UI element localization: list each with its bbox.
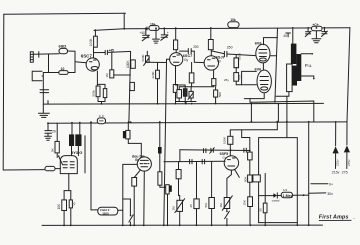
svg-text:1.Meg: 1.Meg [283, 194, 293, 198]
svg-text:30v: 30v [327, 192, 333, 196]
svg-text:1M: 1M [219, 203, 223, 208]
svg-text:100K: 100K [126, 60, 130, 68]
ground below can cap [312, 31, 321, 43]
resistor R26 bottom row 5 [248, 197, 253, 226]
svg-text:5K: 5K [51, 148, 55, 152]
wire D1 to box [277, 195, 281, 197]
transformer T1 OT primary A [291, 44, 297, 64]
wire plate line to bus [277, 104, 279, 122]
svg-text:20: 20 [52, 129, 56, 133]
capacitor C12 near OT top wire [286, 33, 291, 37]
svg-text:Gy: Gy [135, 158, 139, 162]
wire drop rail to bus x251 [250, 104, 252, 122]
svg-text:100K: 100K [238, 53, 242, 60]
svg-text:1050: 1050 [102, 211, 109, 215]
tick above rail x48 [47, 101, 49, 105]
capacitor C7 coupling to power grids [211, 51, 256, 57]
wire P1 plate top jog [264, 38, 278, 45]
wire B+ bus [48, 122, 347, 123]
svg-text:Gy: Gy [217, 59, 221, 63]
switch SW1 diagonal near tube [58, 155, 63, 165]
wire vertical x309 [308, 122, 310, 225]
capacitor C20 small on x160 [158, 122, 162, 172]
svg-text:215v: 215v [336, 159, 340, 166]
junctions on B+ bus [47, 121, 337, 125]
diode D1 [273, 193, 277, 198]
wire R1 to V1 grid junction [68, 51, 76, 73]
wire vertical left ground branch [42, 73, 44, 105]
wire y130 [230, 129, 277, 131]
wire R12-R13 [235, 68, 237, 73]
capacitor C24 electrolytic [166, 185, 172, 226]
tube V2 6SC7 [170, 53, 183, 66]
resistor R20 on x160 [158, 172, 166, 187]
svg-text:100K: 100K [223, 137, 227, 144]
wire bus down to T2 [71, 123, 73, 135]
capacitor C10 left of ground [305, 28, 311, 37]
svg-text:10: 10 [61, 67, 65, 71]
wire V1 plate to coupling cap [94, 52, 105, 54]
capacitor C22 on wire2 [202, 160, 204, 164]
tube V3 6SJ7 [204, 56, 218, 70]
transformer T2 power bar A [69, 134, 74, 146]
wire V4 grid to drop [123, 163, 138, 165]
wire cathode bus left [179, 86, 214, 87]
svg-text:10K: 10K [242, 200, 246, 205]
wire R13 bottom bus [236, 81, 256, 85]
wire R9 to rail [175, 92, 177, 103]
capacitor C17 with ground [45, 131, 52, 141]
wire grid junction to V1 [75, 62, 86, 63]
terminal stub 2 [309, 192, 326, 194]
svg-text:25: 25 [189, 204, 193, 208]
resistor R22 V5 plate [228, 130, 233, 156]
svg-text:6V6: 6V6 [255, 67, 262, 71]
resistor R2 V1 plate [94, 36, 98, 47]
wire plate vertical x275 [275, 28, 278, 102]
svg-text:40: 40 [283, 34, 287, 38]
jack J2 open box [32, 71, 42, 81]
wire V2 cathode [175, 66, 177, 85]
resistor R18 filter [62, 191, 67, 226]
wire V3 plate [210, 50, 212, 56]
wire field coil right drop [122, 164, 124, 225]
svg-text:100K: 100K [89, 38, 93, 47]
wire P1-P2 link [262, 63, 264, 70]
svg-text:~: ~ [353, 217, 355, 221]
svg-text:6SC7: 6SC7 [81, 54, 93, 59]
svg-text:crystal: crystal [272, 199, 280, 203]
wire2 y161.5 [164, 160, 225, 163]
svg-text:1M: 1M [171, 206, 175, 211]
tube P2 6V6 [257, 70, 271, 93]
pot VR1 volume [144, 51, 150, 65]
wire from jack [33, 53, 59, 56]
ground on rail x156 [153, 28, 160, 43]
capacitor C5 cathode bypass [176, 85, 188, 104]
wire box to right [293, 194, 309, 196]
resistor R3 on x131 [131, 60, 136, 68]
tube V4 [137, 157, 151, 171]
resistor R15 bias [177, 87, 182, 102]
ground main (left) [38, 104, 49, 117]
resistor R6 cathode [96, 86, 100, 97]
svg-text:5Y3 G: 5Y3 G [71, 150, 82, 155]
svg-text:+45: +45 [108, 48, 114, 52]
transformer T2 power bar B [75, 134, 81, 146]
node tick on input wire [38, 52, 40, 58]
resistor R27 boxed 1meg [281, 192, 292, 198]
wire V4 cathode [134, 170, 140, 178]
resistor R13 grid divider B [234, 73, 239, 82]
wire J2 to down line [42, 75, 43, 77]
wire T2 to rectifier B [77, 146, 79, 156]
resistor R16 screen [214, 87, 218, 104]
capacitor C19 filter on bus [123, 122, 130, 143]
tube V5 6SF5 [224, 156, 238, 170]
wire bus left end down [47, 123, 49, 130]
resistor R17 10K box on rail [228, 22, 239, 28]
svg-text:6V6: 6V6 [255, 41, 262, 45]
svg-text:500c: 500c [92, 89, 96, 96]
svg-text:275v: 275v [347, 159, 351, 166]
svg-text:500K: 500K [141, 54, 145, 61]
wire V2 plate [175, 50, 177, 53]
capacitor C4 cathode bypass [97, 84, 106, 97]
choke L1 field coil box [91, 207, 123, 215]
capacitor C9 can on rail [312, 26, 323, 30]
transformer T1 OT primary B [296, 54, 301, 81]
wire C bottom to speaker [286, 96, 288, 137]
svg-text:500: 500 [218, 92, 222, 97]
wire V3 cathode [213, 70, 215, 79]
capacitor C2 on ground branch [40, 90, 49, 93]
svg-text:50c: 50c [204, 202, 208, 207]
svg-text:1/4: 1/4 [283, 188, 288, 192]
svg-text:Vy: Vy [72, 202, 76, 206]
capacitor C13 box on rail 16uF [147, 26, 159, 31]
resistor R24 bottom row 2 [194, 162, 199, 226]
wire grid leak drop [48, 54, 50, 73]
capacitor pair on wire1 B [210, 148, 215, 154]
resistor R30 on x250 [248, 175, 253, 182]
wire split junction [64, 190, 71, 192]
capacitor C3 coupling [105, 50, 107, 54]
svg-text:68Ω: 68Ω [59, 44, 67, 49]
wire rectifier output down [68, 174, 70, 191]
wire y130 left corner down [242, 130, 250, 199]
resistor R14 V3 cathode [212, 79, 216, 86]
wire T2 right heater [84, 136, 86, 173]
wire left border [3, 14, 45, 170]
svg-text:275: 275 [342, 170, 348, 174]
wire P1 plate to vertical [270, 55, 276, 57]
svg-text:250: 250 [227, 45, 233, 49]
wire C19 to V4 plate [128, 143, 141, 156]
probe line right 275 [344, 145, 350, 168]
svg-text:47K: 47K [238, 75, 242, 80]
capacitor C8 bias bypass [188, 87, 193, 102]
svg-text:215v: 215v [332, 170, 340, 174]
terminal box on speaker left edge [253, 175, 260, 182]
resistor R12 grid divider A [234, 55, 239, 68]
wire bottom ground rail [42, 224, 323, 226]
svg-text:1M: 1M [105, 73, 109, 78]
wire bus down to T2 second lead [79, 123, 81, 135]
resistor R28 left of power transformer [55, 123, 59, 157]
wire OT top to rail [292, 28, 294, 44]
resistor R29 on x250 [248, 152, 253, 160]
wire diode row start [259, 195, 274, 197]
svg-text:+C+: +C+ [312, 23, 318, 27]
wire V5 cathode to pot [227, 170, 232, 197]
svg-text:16+: 16+ [150, 23, 156, 27]
resistor R10 V3 grid leak [189, 62, 194, 86]
pot VR2 bottom row 1 [175, 196, 185, 226]
transformer T1 winding C outline [287, 64, 293, 92]
wire drop bus to y130 [276, 122, 278, 130]
resistor R31 box on lower grid path [43, 71, 75, 75]
jack J1 input [30, 52, 33, 62]
wire P2 grid riser [242, 71, 257, 84]
capacitor C14 drop with plates [142, 28, 149, 40]
svg-text:P.u.: P.u. [305, 63, 313, 68]
wire C3 to vol pot [108, 51, 131, 52]
wire long vertical x131 [129, 52, 131, 123]
wire R11 to rail [210, 28, 212, 40]
resistor R4 on x131 lower [130, 82, 135, 90]
wire bias bottom [176, 102, 196, 104]
capacitor tick on wire1 [244, 148, 246, 152]
wire bottom loop to OT [250, 101, 314, 122]
wire right border down to probe [347, 28, 350, 145]
resistor R8 V2 plate [174, 40, 178, 50]
resistor R5 with right wire [110, 52, 131, 78]
wire R2 to rail [94, 30, 96, 36]
wire OT secondary stub bottom [301, 76, 314, 79]
capacitor C6 coupling V2-V3 [180, 49, 205, 63]
svg-text:Gy: Gy [184, 58, 188, 62]
text labels group [51, 18, 355, 220]
tube V6 5Y3 rectifier [60, 156, 77, 174]
tube P1 6V6 [256, 44, 270, 63]
wire R8 to rail [175, 28, 177, 40]
wire grid bus y62.7 [147, 61, 166, 63]
capacitor C16 box on B+ bus [97, 116, 105, 124]
capacitor C21 on wire2 [190, 159, 192, 163]
wire T2 to rectifier A [71, 146, 73, 156]
svg-text:+40: +40 [140, 31, 146, 35]
svg-text:10k: 10k [230, 18, 236, 22]
svg-text:Gy: Gy [222, 156, 226, 160]
wire V1 cathode [96, 71, 98, 86]
resistor R11 V3 plate [208, 40, 213, 50]
wire R19 to rail [133, 186, 135, 225]
wire VR2 top from R15 area [178, 162, 180, 170]
resistor R9 V2 cathode [173, 85, 177, 93]
capacitor pair on wire1 A [204, 149, 206, 153]
wire P2 cathode bottom [244, 93, 264, 102]
terminal stub 1 [311, 183, 328, 185]
junctions on B+ rail [95, 27, 326, 31]
junctions on ground rail [101, 103, 280, 227]
probe line left 215v [333, 122, 339, 169]
svg-text:0+: 0+ [329, 183, 333, 187]
svg-text:50K: 50K [243, 177, 247, 182]
capacitor C18 filter [69, 191, 72, 226]
wire1 y150 [180, 149, 250, 152]
svg-text:First Amps: First Amps [319, 215, 349, 221]
label First Amps [319, 215, 355, 221]
tube V1 6SC7 [86, 58, 99, 71]
capacitor C15 drop x164 [161, 28, 168, 40]
junctions on bottom rail [63, 194, 309, 226]
pot VR3 bottom row 4 with switch [222, 196, 232, 226]
speaker box SPK [259, 138, 298, 226]
wire mains from fuse to tube [55, 168, 60, 170]
resistor R23 stacked above VR2 [176, 170, 181, 196]
wire vertical x91 to field coil [90, 122, 92, 210]
wire OT secondary stub top [301, 53, 313, 55]
transformer T1 winding D dark [292, 66, 297, 86]
svg-text:220K: 220K [151, 71, 155, 78]
switch SW2 on x130 [123, 199, 133, 225]
wire drop from top border to B+ rail [123, 13, 125, 29]
resistor R19 V4 cathode [132, 178, 137, 187]
capacitor C11 right of ground [322, 28, 328, 37]
wire V5 cathode arrow [235, 170, 240, 178]
resistor R7 grid leak V2 [156, 63, 160, 104]
wire V1 plate up [93, 47, 95, 58]
wire B+ rail [94, 28, 350, 31]
resistor R1 68K [59, 48, 68, 53]
wire top border [4, 13, 126, 14]
wire1 left corner [179, 150, 181, 162]
svg-text:+: + [167, 31, 169, 35]
svg-text:25y: 25y [224, 78, 229, 82]
wire tee up to V2 grid [167, 59, 170, 62]
svg-text:50: 50 [259, 208, 263, 212]
wire mid ground rail [43, 102, 323, 105]
wire V4 cathode direct to rail [143, 171, 146, 225]
resistor R25 bottom row 3 [209, 161, 215, 225]
fuse F1 box [45, 166, 55, 170]
svg-text:250: 250 [193, 45, 199, 49]
capacitor C23 bottom row 6 [263, 174, 267, 226]
wire long vertical to bottom rail [164, 63, 167, 226]
wire winding C bottom loop [276, 92, 289, 97]
wire cathode parts to rail [98, 97, 105, 104]
svg-text:10K: 10K [57, 203, 61, 210]
